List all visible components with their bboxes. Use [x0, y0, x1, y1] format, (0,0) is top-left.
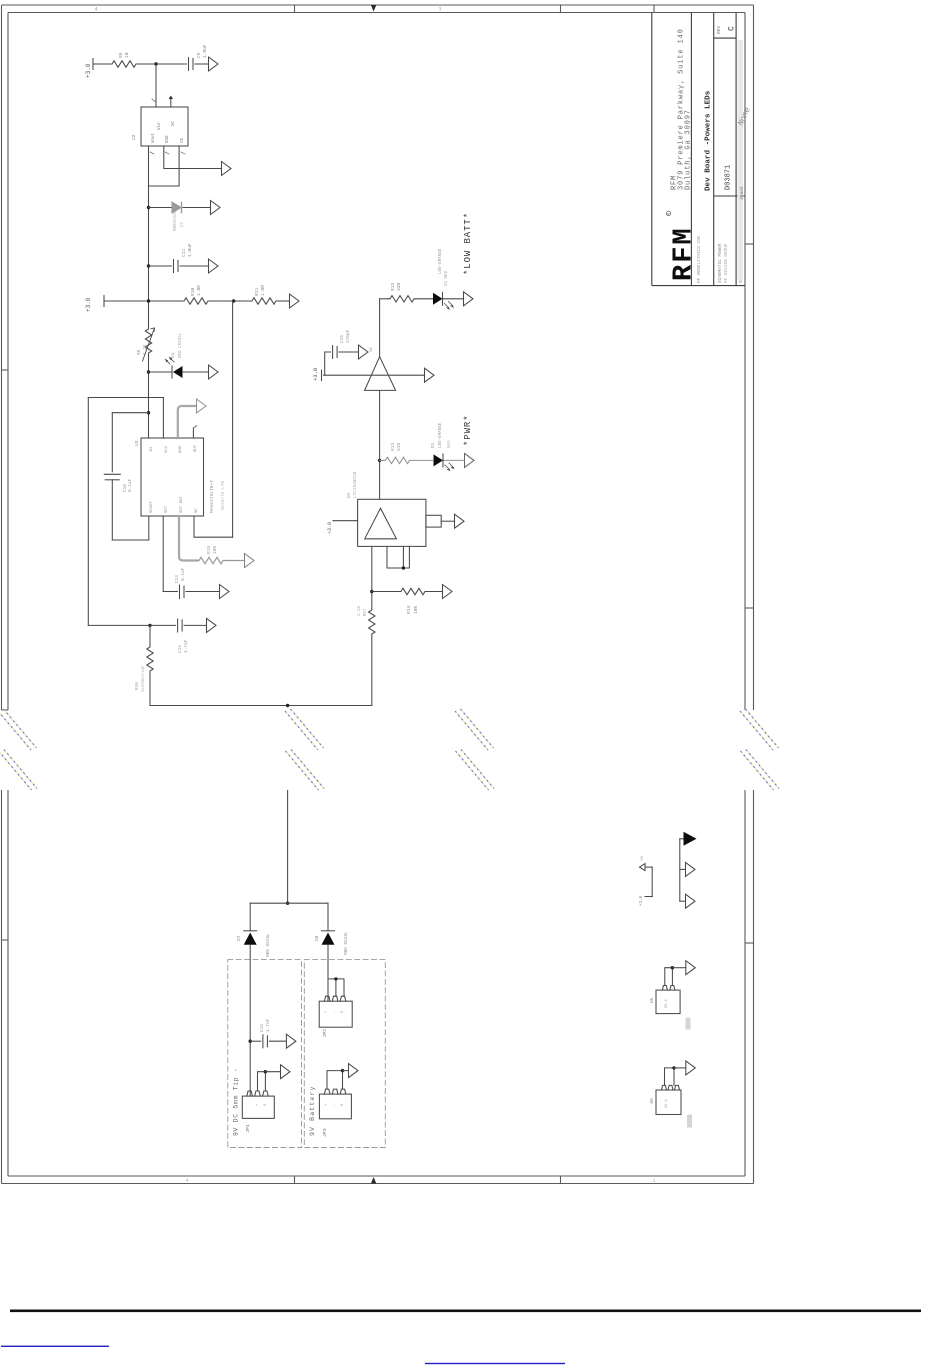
- border inner left lower: [7, 790, 9, 1176]
- U4 bottom pin wire down: [371, 546, 373, 608]
- wire: [674, 1067, 686, 1069]
- resistor R16: [149, 625, 151, 645]
- resistor R14: [399, 588, 427, 594]
- zone tick top 3: [653, 5, 655, 13]
- svg-text:RF DESIGN GROUP: RF DESIGN GROUP: [724, 243, 729, 283]
- svg-text:R16: R16: [135, 682, 140, 690]
- svg-text:1.0M: 1.0M: [260, 285, 266, 296]
- border outer bottom: [2, 1183, 754, 1185]
- svg-text:JRoot: JRoot: [739, 186, 745, 200]
- footer hyperlink underline middle: [425, 1363, 565, 1364]
- wire split bus: [250, 902, 328, 904]
- resistor R9: [110, 61, 138, 67]
- svg-text:D4: D4: [171, 352, 176, 358]
- svg-text:GND: GND: [166, 135, 170, 143]
- svg-text:D03871: D03871: [725, 165, 733, 190]
- wire: [225, 560, 245, 562]
- title block divider B/C: [713, 13, 715, 286]
- wire FB row: [149, 207, 172, 209]
- border inner left upper: [7, 13, 9, 711]
- connector JP3 prongs: [324, 1089, 345, 1094]
- wire: [149, 673, 151, 706]
- power arrow small left: [640, 864, 646, 871]
- svg-text:MBR 0520L: MBR 0520L: [266, 933, 271, 957]
- PWR row wire (grey): [380, 459, 384, 461]
- IC U3 body: [141, 438, 204, 516]
- svg-text:C16: C16: [260, 1024, 265, 1032]
- wire C15 branch: [325, 352, 331, 375]
- ground D3: [465, 453, 475, 467]
- node hysteresis loop: [402, 566, 405, 569]
- wire: [183, 371, 209, 373]
- mounting block U5 body: [656, 990, 680, 1014]
- ferrite diode D5 (grey): [172, 202, 181, 213]
- zone tick top 2: [560, 5, 562, 13]
- ground C15: [359, 345, 369, 359]
- svg-text:+3.0: +3.0: [327, 522, 333, 534]
- svg-text:R14: R14: [406, 605, 412, 614]
- svg-text:1: 1: [652, 1178, 655, 1184]
- svg-text:-: -: [333, 1011, 337, 1013]
- svg-text:U6: U6: [650, 1098, 655, 1104]
- svg-text:10K: 10K: [212, 545, 218, 554]
- node junction at regulator input: [154, 62, 157, 65]
- node FB junction: [147, 206, 150, 209]
- svg-text:MAX6775LTB+T: MAX6775LTB+T: [209, 480, 215, 513]
- ground U6: [686, 1061, 696, 1075]
- potentiometer R8: [145, 327, 151, 355]
- wire: [412, 459, 433, 461]
- regulator U2 body: [141, 107, 188, 146]
- ground D2: [464, 292, 474, 306]
- zone tick left 1: [2, 369, 9, 371]
- wire U5 tie: [665, 968, 673, 986]
- wire: [672, 967, 685, 969]
- svg-text:+3: +3: [641, 856, 645, 861]
- svg-text:4: 4: [185, 1178, 188, 1184]
- wire pin3 down: [178, 146, 180, 186]
- svg-text:0.1uF: 0.1uF: [181, 567, 186, 581]
- wire into regulator: [155, 64, 157, 107]
- svg-text:D2 RED: D2 RED: [445, 270, 449, 286]
- svg-text:. . . . . .: . . . . . .: [665, 231, 669, 277]
- zone tick right 3: [745, 942, 754, 944]
- wire: [416, 298, 433, 300]
- border left splice cap: [2, 709, 9, 711]
- wire JP1 shield loop: [258, 1072, 266, 1091]
- diode D8: [322, 930, 335, 932]
- svg-text:+3.0: +3.0: [85, 297, 92, 312]
- svg-text:MBR0520L: MBR0520L: [174, 210, 178, 231]
- border inner top: [8, 12, 745, 14]
- wire: [148, 355, 150, 438]
- wire: [195, 63, 209, 65]
- wire supervisor loop up: [162, 398, 164, 439]
- svg-text:SET: SET: [165, 505, 169, 513]
- LOW BATT row wire: [380, 298, 388, 300]
- dashed enclosure 9V DC: [228, 960, 302, 1148]
- svg-text:10: 10: [124, 52, 130, 58]
- svg-text:MAX6775 LTB: MAX6775 LTB: [221, 481, 226, 510]
- zone tick bottom 1: [294, 1176, 296, 1184]
- wire pin1-pin3 link: [149, 185, 180, 187]
- border inner right upper: [744, 13, 746, 711]
- svg-text:R8: R8: [137, 349, 142, 355]
- wire JP3 tie loop: [327, 1071, 343, 1090]
- wire C13 row: [163, 591, 177, 593]
- resistor R11: [250, 298, 278, 304]
- resistor R13 (grey): [384, 457, 412, 463]
- svg-text:D7: D7: [236, 935, 242, 941]
- wire U3 pin5 loop: [194, 516, 233, 537]
- wire left branch down: [249, 903, 251, 931]
- svg-text:NC: NC: [195, 508, 199, 513]
- splice mark left: [0, 709, 37, 790]
- svg-text:15: 15: [370, 347, 374, 352]
- U6 prongs: [662, 1085, 680, 1090]
- power rail +3.0 top stub: [92, 59, 94, 70]
- wire supervisor loop bottom: [88, 624, 150, 626]
- wire: [444, 459, 465, 461]
- svg-text:GND: GND: [179, 445, 183, 453]
- svg-text:+3.0: +3.0: [85, 63, 92, 78]
- svg-text:Duluth, Ga 30097: Duluth, Ga 30097: [685, 109, 693, 190]
- capacitor C13: [179, 585, 181, 599]
- svg-text:4.7uF: 4.7uF: [184, 639, 189, 653]
- node JP1 loop: [264, 1070, 267, 1073]
- wire: [93, 63, 110, 65]
- wire bypass loop left upper: [111, 413, 113, 472]
- node JP2 loop: [334, 977, 337, 980]
- footer hyperlink underline left: [1, 1346, 109, 1347]
- wire U3 pin6 down: [162, 516, 164, 592]
- title block divider A/B: [690, 13, 692, 286]
- svg-text:4: 4: [94, 7, 97, 13]
- svg-text:R12: R12: [390, 282, 396, 291]
- node R14 junction: [370, 590, 373, 593]
- wire pin1 down: [148, 146, 150, 186]
- svg-text:R17: R17: [364, 608, 368, 616]
- wire supervisor loop top: [88, 397, 163, 399]
- svg-text:-: -: [248, 1103, 252, 1105]
- svg-text:U5: U5: [650, 997, 655, 1003]
- wire: [680, 838, 684, 840]
- svg-text:2.2K: 2.2K: [358, 605, 362, 616]
- svg-text:C15: C15: [340, 335, 345, 343]
- svg-text:4.7uF: 4.7uF: [266, 1018, 271, 1032]
- wire C16 row: [250, 1040, 261, 1042]
- svg-text:2.2K: 2.2K: [143, 344, 148, 355]
- dashed enclosure 9V Battery: [304, 960, 385, 1148]
- svg-text:RF MONOLITHICS INC: RF MONOLITHICS INC: [697, 235, 702, 283]
- svg-text:Vout: Vout: [152, 132, 156, 143]
- border outer top: [2, 4, 754, 6]
- svg-text:D5: D5: [181, 221, 185, 227]
- svg-text:MBR 0520L: MBR 0520L: [344, 931, 349, 955]
- splice mark right: [740, 709, 779, 790]
- wire: [186, 591, 220, 593]
- svg-text:330: 330: [396, 282, 402, 291]
- svg-text:LED-ORANGE: LED-ORANGE: [439, 248, 443, 274]
- U6 grey tag: [687, 1115, 692, 1128]
- svg-text:-: -: [333, 1104, 337, 1106]
- power arrow VCC (filled): [684, 832, 697, 846]
- svg-text:SRT OUT: SRT OUT: [180, 496, 184, 513]
- wire: [371, 636, 373, 706]
- svg-text:10K: 10K: [413, 605, 419, 614]
- connector JP2 prongs: [324, 996, 345, 1001]
- svg-text:+3.0: +3.0: [640, 895, 644, 906]
- ground R15 (grey): [245, 554, 255, 568]
- U3 pin7 grey wire to R15: [179, 516, 197, 561]
- wire pin1 bottom stub: [148, 516, 150, 540]
- ground C11: [209, 259, 219, 273]
- wire: [645, 896, 652, 898]
- svg-text:C14: C14: [178, 645, 183, 653]
- wire: [441, 520, 454, 522]
- svg-text:JP2: JP2: [322, 1029, 328, 1038]
- svg-text:Dev Board -Powers LEDs: Dev Board -Powers LEDs: [705, 90, 713, 191]
- ground bracket bottom: [686, 894, 696, 908]
- svg-text:9V-4: 9V-4: [665, 999, 669, 1008]
- comparator U4 triangle: [365, 508, 397, 539]
- node C16 junction: [249, 1040, 252, 1043]
- pin marker arrows: [150, 152, 185, 154]
- ground C16: [286, 1034, 296, 1048]
- splice mark mid-left: [285, 709, 324, 790]
- wire bottom bus: [150, 705, 372, 707]
- svg-text:RESET: RESET: [150, 500, 154, 513]
- wire: [427, 591, 443, 593]
- wire long feedback up: [232, 301, 234, 537]
- node left-loop junction: [147, 411, 150, 414]
- connector JP3 body: [319, 1094, 351, 1119]
- svg-text:1.0K: 1.0K: [196, 285, 202, 296]
- ground JP1: [281, 1065, 291, 1079]
- title block rev box line: [714, 37, 736, 39]
- buffer U1 triangle: [365, 357, 396, 391]
- wire power feed down: [287, 791, 289, 904]
- svg-text:LTC1540CS8: LTC1540CS8: [353, 471, 358, 498]
- zone tick bottom 2: [560, 1176, 562, 1184]
- svg-text:IN: IN: [150, 447, 154, 452]
- node D4 junction: [147, 370, 150, 373]
- ground C9: [209, 57, 219, 71]
- svg-text:SCHEMATIC POWER: SCHEMATIC POWER: [718, 243, 723, 283]
- wire: [645, 866, 652, 868]
- capacitor C16: [262, 1035, 264, 1048]
- wire comparator feed down: [379, 299, 381, 357]
- svg-text:510: 510: [396, 442, 402, 451]
- wire: [339, 351, 359, 353]
- wire bypass loop top: [112, 412, 148, 414]
- svg-text:+3.0: +3.0: [312, 368, 319, 381]
- ground regulator pin2: [222, 162, 232, 176]
- resistor R10: [182, 298, 210, 304]
- node power split: [286, 902, 289, 905]
- ground D4: [209, 365, 219, 379]
- svg-text:C13: C13: [175, 575, 180, 583]
- resistor R17: [369, 608, 375, 636]
- capacitor C9: [188, 58, 190, 71]
- wire right branch down: [327, 903, 329, 931]
- svg-text:C9: C9: [196, 52, 202, 58]
- ground bracket mid: [686, 862, 696, 876]
- wire: [269, 1040, 286, 1042]
- node U5 tie: [671, 966, 674, 969]
- wire: [680, 868, 686, 870]
- svg-text:R15: R15: [206, 545, 212, 554]
- svg-text:*LOW BATT*: *LOW BATT*: [463, 212, 473, 275]
- svg-text:1.0uF: 1.0uF: [202, 44, 208, 58]
- title block lower divider: [714, 195, 745, 197]
- border inner bottom: [8, 1175, 745, 1177]
- svg-text:REV: REV: [716, 26, 722, 34]
- ground FB row: [211, 201, 221, 215]
- net tie bracket right: [679, 839, 681, 901]
- zone tick right 2: [745, 607, 754, 609]
- ground U5: [686, 961, 696, 975]
- svg-text:C11: C11: [181, 248, 187, 257]
- splice mark mid-right: [455, 709, 494, 790]
- wire: [278, 300, 290, 302]
- node bottom bus: [286, 704, 289, 707]
- svg-text:VCC: VCC: [165, 445, 169, 453]
- U4 right small box: [426, 515, 441, 527]
- svg-text:1.0uF: 1.0uF: [187, 243, 193, 257]
- capacitor C10: [104, 473, 120, 475]
- node PWR junction: [378, 459, 381, 462]
- svg-text:CE: CE: [181, 137, 185, 143]
- main rail down: [148, 186, 150, 327]
- connector JP1 body: [242, 1096, 274, 1118]
- zone tick left 2: [2, 939, 9, 941]
- wire JP2 tie loop: [328, 979, 344, 996]
- U5 prongs: [662, 986, 675, 991]
- svg-text:D8: D8: [314, 935, 320, 941]
- svg-text:OUT: OUT: [194, 444, 198, 452]
- svg-text:C: C: [728, 26, 737, 31]
- svg-text:*PWR*: *PWR*: [463, 414, 473, 446]
- ground R14: [443, 585, 453, 599]
- svg-text:0.1uF: 0.1uF: [128, 478, 133, 492]
- svg-text:9V Battery: 9V Battery: [309, 1085, 316, 1136]
- svg-text:9V DC 5mm Tip -: 9V DC 5mm Tip -: [233, 1068, 240, 1136]
- wire: [680, 900, 686, 902]
- svg-text:JP1: JP1: [245, 1124, 251, 1133]
- svg-text:R10: R10: [190, 287, 196, 296]
- U3 pin3 grey wire to ground: [178, 406, 196, 438]
- diode D7: [244, 930, 257, 932]
- wire pin2 to ground: [164, 146, 222, 169]
- svg-text:9V-4: 9V-4: [665, 1099, 669, 1108]
- U4 left power wire: [333, 520, 358, 522]
- net arrow crossing row: [425, 368, 435, 382]
- wire main row: [104, 300, 182, 302]
- wire: [138, 63, 187, 65]
- comparator U4 body: [358, 499, 426, 546]
- wire: [265, 1071, 280, 1073]
- border outer left upper: [1, 5, 3, 710]
- regulator U2 top pin stub: [170, 99, 172, 107]
- capacitor C11: [173, 260, 175, 273]
- wire: [180, 265, 209, 267]
- resistor R12: [388, 296, 416, 302]
- svg-text:3: 3: [438, 7, 441, 13]
- wire C14 row: [150, 624, 176, 626]
- capacitor C14: [177, 619, 179, 632]
- svg-text:RED CR103L: RED CR103L: [179, 332, 183, 358]
- resistor R15 (grey): [197, 557, 225, 563]
- ground C13: [220, 585, 230, 599]
- net tie bracket left: [651, 867, 653, 896]
- footer rule: [10, 1310, 921, 1313]
- zone tick top 1: [294, 5, 296, 13]
- centering arrow top: [371, 5, 376, 12]
- svg-text:RFM: RFM: [670, 226, 700, 281]
- svg-text:Vin: Vin: [157, 122, 162, 130]
- svg-text:NC: NC: [172, 120, 176, 126]
- mounting block U6 body: [656, 1090, 681, 1115]
- svg-text:U3: U3: [134, 440, 140, 446]
- U4 hysteresis loop: [387, 546, 409, 568]
- wire D7 to JP1: [249, 945, 251, 1096]
- svg-text:470pF: 470pF: [346, 329, 351, 343]
- wire: [184, 624, 206, 626]
- wire supervisor loop left: [87, 398, 89, 626]
- wire bypass loop bottom: [112, 539, 149, 541]
- power stub mid: [103, 296, 105, 307]
- wire C11 row: [149, 265, 172, 267]
- ground C14: [207, 618, 217, 632]
- zone tick right 1: [745, 243, 754, 245]
- LED D2: [433, 293, 443, 305]
- scale stamp blob: [737, 106, 753, 127]
- net arrow R11: [290, 294, 300, 308]
- svg-text:R9: R9: [118, 52, 124, 58]
- border outer right lower: [753, 790, 755, 1184]
- ground U3 pin3 (grey): [197, 399, 207, 413]
- svg-text:JP3: JP3: [322, 1128, 328, 1137]
- wire: [444, 298, 464, 300]
- wire buffer output down: [379, 390, 381, 499]
- wire R14 row: [372, 591, 399, 593]
- wire: [210, 300, 250, 302]
- connector JP2 body: [319, 1001, 352, 1027]
- wire crossing row: [324, 374, 425, 376]
- wire: [183, 207, 211, 209]
- edge strip grey band: [738, 40, 744, 280]
- ground JP3: [349, 1064, 359, 1078]
- node C14 junction: [148, 624, 151, 627]
- ground U4 right: [455, 514, 465, 528]
- wire D8 to JP2: [327, 945, 329, 1001]
- node main row rail: [147, 299, 150, 302]
- title block bottom edge: [652, 285, 745, 287]
- svg-text:5mm: 5mm: [448, 440, 452, 448]
- border outer left lower: [1, 790, 3, 1184]
- node C11 junction: [147, 264, 150, 267]
- svg-text:D3: D3: [432, 442, 436, 448]
- LED D4: [149, 371, 173, 373]
- wire U6 tie: [665, 1068, 675, 1086]
- capacitor C15: [332, 346, 334, 359]
- RFM logo: [666, 211, 699, 281]
- wire bypass loop left lower: [111, 480, 113, 540]
- node U6 tie: [672, 1066, 675, 1069]
- title block divider C/D: [735, 13, 737, 286]
- svg-text:U2: U2: [131, 134, 137, 140]
